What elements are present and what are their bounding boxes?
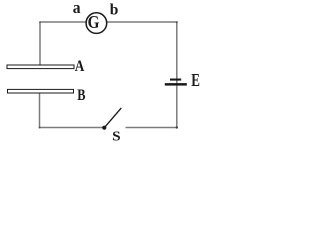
svg-text:A: A	[75, 58, 85, 75]
svg-text:G: G	[88, 12, 100, 32]
svg-text:E: E	[191, 70, 200, 90]
svg-text:B: B	[77, 87, 85, 104]
svg-text:a: a	[73, 0, 81, 17]
svg-text:S: S	[112, 130, 121, 145]
svg-text:b: b	[110, 1, 119, 18]
